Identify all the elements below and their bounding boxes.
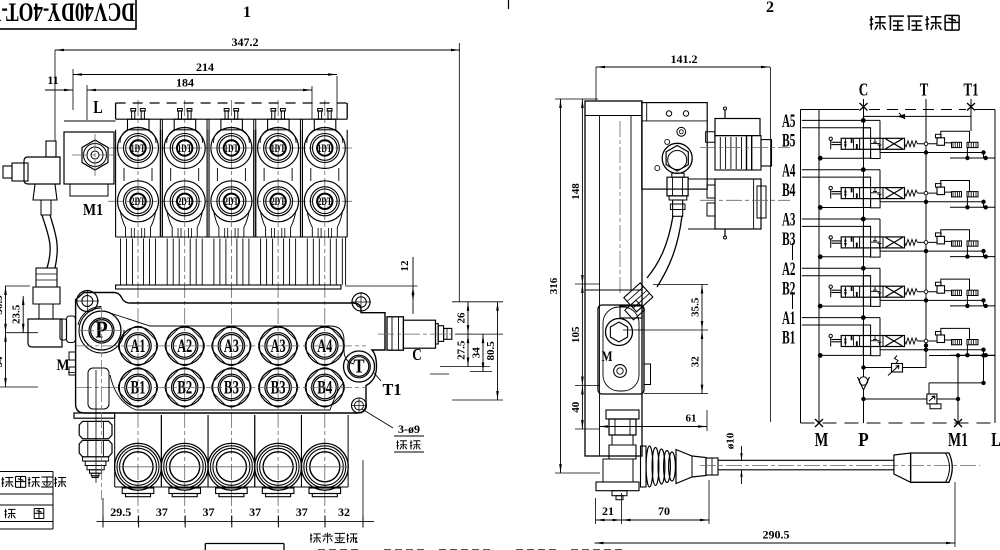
valve section 2 (solenoids 1DT/2DT) — [162, 109, 207, 239]
svg-text:T: T — [354, 356, 366, 378]
small port — [655, 166, 660, 171]
center carryover box — [863, 325, 870, 355]
C fitting centerline — [378, 333, 472, 335]
body inner contour around ports — [104, 311, 354, 364]
port X at M1 — [954, 419, 962, 427]
dim 316 148 105 40 — [555, 98, 598, 100]
valve X position — [886, 139, 903, 149]
bracket wires — [941, 279, 970, 290]
svg-text:36.5: 36.5 — [0, 295, 5, 315]
center carryover box — [863, 276, 870, 306]
svg-text:184: 184 — [176, 76, 194, 90]
spring symbol — [905, 141, 918, 147]
wire valve to pilot box — [918, 143, 938, 145]
mounting band above body — [116, 285, 341, 289]
tank line — [880, 201, 984, 203]
dim 141.2 — [595, 67, 597, 101]
svg-text::: : — [354, 532, 358, 546]
valve section 3 (solenoids 1DT/2DT) — [209, 109, 254, 239]
svg-text:2: 2 — [766, 0, 774, 16]
wire valve to pilot box — [918, 241, 938, 243]
svg-text:A2: A2 — [782, 260, 796, 280]
right side dims 26 27.5 34 80.5 — [452, 301, 503, 303]
directional valve V3 — [841, 237, 904, 248]
pilot block circle (35.5) — [606, 319, 633, 346]
pilot check box — [937, 187, 945, 195]
svg-text:35.5: 35.5 — [690, 297, 702, 317]
elbow fitting (top, port L side) — [46, 141, 56, 157]
bracket wires — [941, 131, 970, 142]
svg-text:37: 37 — [156, 505, 168, 519]
tank line — [880, 299, 984, 301]
supply bracket left — [820, 157, 863, 159]
svg-text:32: 32 — [690, 356, 702, 368]
lever rod centerline — [700, 465, 980, 467]
svg-text:12: 12 — [399, 260, 411, 272]
solenoid block 2 — [967, 340, 978, 345]
spool end cap 3 — [208, 443, 255, 490]
supply bracket left — [820, 256, 863, 258]
front view: valve section centerlines — [137, 100, 139, 524]
sub box under valve — [871, 248, 881, 257]
svg-text:37: 37 — [249, 505, 261, 519]
sub box under valve — [871, 347, 881, 356]
wire B4 line — [802, 176, 871, 178]
C/P rail — [863, 99, 865, 377]
coupling nut — [33, 184, 57, 200]
main valve body outline — [76, 293, 385, 414]
svg-text:B1: B1 — [782, 329, 796, 349]
schematic boundary top — [801, 109, 860, 111]
carryover line with arrow — [864, 115, 972, 117]
boundary right rail (L) — [994, 110, 996, 424]
solenoid block 2 — [967, 290, 978, 295]
svg-text:214: 214 — [196, 60, 214, 74]
port X at M — [815, 419, 823, 427]
label tong kong (through hole) — [397, 440, 421, 449]
svg-text:B2: B2 — [782, 279, 796, 299]
lever symbol — [829, 334, 832, 337]
svg-text:316: 316 — [548, 277, 560, 294]
solenoid block 1 — [952, 340, 962, 345]
elbow fitting 2 (port side) — [33, 287, 60, 304]
directional valve V2 — [841, 286, 904, 297]
left margin table: generic parts registry — [0, 471, 53, 473]
valve X position — [886, 188, 903, 198]
svg-text:3-ø9: 3-ø9 — [398, 422, 420, 436]
B row centerline — [76, 386, 366, 388]
svg-text:T1: T1 — [964, 80, 979, 100]
spool end cap 4 — [255, 443, 302, 490]
svg-text:L: L — [93, 97, 103, 117]
C port fitting — [387, 317, 403, 350]
svg-text:70: 70 — [658, 504, 670, 518]
spring symbol — [905, 239, 918, 245]
left side dims 23.5 34 — [5, 285, 30, 287]
wire B3 line — [802, 225, 871, 227]
L port block — [64, 132, 114, 184]
svg-text:C: C — [412, 345, 422, 364]
pilot check box — [937, 138, 945, 146]
bracket relief2 — [928, 383, 930, 394]
lever collar — [706, 458, 718, 475]
vent hole — [666, 111, 671, 116]
svg-text:27.5: 27.5 — [456, 340, 468, 360]
stack centerline — [95, 370, 97, 483]
svg-text:1: 1 — [243, 4, 251, 21]
svg-text:ø10: ø10 — [725, 432, 737, 449]
center carryover box — [863, 128, 870, 158]
tank line — [880, 250, 984, 252]
svg-text:141.2: 141.2 — [671, 52, 698, 66]
wire valve to pilot box — [918, 291, 938, 293]
bracket wires — [941, 328, 970, 339]
M1 up line — [957, 356, 959, 424]
port circle B3 — [208, 364, 256, 412]
solenoid block 2 — [967, 241, 978, 246]
cartridge pin lower — [724, 229, 726, 236]
T1 stub — [970, 99, 972, 131]
side view: solenoid head block — [642, 103, 707, 190]
dim 12 (right step) — [345, 285, 418, 287]
svg-text:M1: M1 — [83, 200, 103, 219]
solenoid block 2 — [967, 192, 978, 197]
svg-text:A4: A4 — [782, 161, 796, 181]
spool housings — [114, 415, 116, 487]
svg-text:A1: A1 — [782, 309, 796, 329]
dim 35.5 32 — [653, 284, 708, 286]
svg-text:B3: B3 — [782, 230, 796, 250]
spring symbol — [905, 338, 918, 344]
center carryover box — [863, 177, 870, 207]
sections bottom edge — [116, 236, 348, 238]
pilot check box — [937, 335, 945, 343]
solenoid block 2 — [967, 142, 978, 147]
vent hole — [683, 111, 688, 116]
cartridge pin — [724, 110, 726, 119]
svg-text:29.5: 29.5 — [110, 505, 131, 519]
wire A4 line — [802, 169, 880, 171]
svg-text:L: L — [991, 430, 1000, 451]
svg-text:C: C — [859, 80, 869, 100]
valve section 5 (solenoids 1DT/2DT) — [302, 109, 347, 239]
mounting bolt hole bottom-right (3-eq9) — [352, 398, 367, 413]
A row centerline — [76, 345, 366, 347]
cartridge axis lines — [700, 147, 790, 149]
wire valve to pilot box — [918, 340, 938, 342]
section separators — [159, 119, 161, 237]
solenoid block 1 — [952, 142, 962, 147]
sub box under valve — [871, 297, 881, 306]
sections top edge — [116, 118, 348, 120]
bolt stack below body — [74, 413, 115, 418]
hose fitting under ball — [672, 173, 684, 177]
port circle T — [344, 351, 375, 382]
lower solenoid cartridge (side) — [715, 179, 761, 229]
valve section 4 (solenoids 1DT/2DT) — [256, 109, 301, 239]
port circle B4 — [301, 364, 349, 412]
dim 184 + 11 — [86, 85, 88, 120]
pilot check box — [937, 286, 945, 294]
valve section 1 (solenoids 1DT/2DT) — [116, 109, 161, 239]
filter/check at P — [858, 377, 870, 390]
spring symbol — [905, 289, 918, 295]
lever rod — [718, 459, 894, 461]
dim 214 — [72, 69, 74, 110]
mounting bolt hole top-left — [77, 291, 98, 312]
svg-text:23.5: 23.5 — [11, 304, 23, 324]
svg-text:37: 37 — [203, 505, 215, 519]
lever grip — [894, 453, 911, 482]
wire A3 line — [802, 218, 880, 220]
supply bracket left — [820, 207, 863, 209]
wire B5 line — [802, 127, 871, 129]
small port — [665, 139, 670, 144]
connection line cartridge to block — [688, 178, 715, 180]
base plate — [596, 482, 639, 491]
dim 61 — [706, 410, 708, 431]
port circle A3 — [254, 322, 302, 370]
valve X position — [886, 336, 903, 346]
side bolt stack — [606, 410, 639, 419]
solenoid block 1 — [952, 290, 962, 295]
svg-text:26: 26 — [456, 312, 468, 324]
technical parameters heading — [310, 533, 357, 544]
side view: main column — [585, 101, 642, 456]
dim 290.5 — [954, 482, 956, 547]
inlet plate top edge — [64, 120, 116, 122]
port circle A1 — [114, 322, 162, 370]
bottom dims 29.5 37x4 32 — [102, 498, 104, 526]
tank line — [880, 349, 984, 351]
svg-text:B5: B5 — [782, 132, 796, 152]
T rail — [925, 99, 927, 368]
port circle A3 — [208, 322, 256, 370]
svg-text:61: 61 — [686, 413, 697, 425]
label tick marks — [792, 243, 794, 260]
plugged port X at C — [860, 103, 868, 111]
plugged port X at T1 — [967, 103, 975, 111]
sight ring — [677, 127, 686, 136]
svg-text:M: M — [57, 357, 70, 374]
spool end cap 1 — [115, 443, 162, 490]
wire A2 line — [802, 267, 880, 269]
lever cone — [676, 450, 706, 484]
svg-text:M: M — [602, 349, 613, 365]
wire B2 line — [802, 275, 871, 277]
port circle A2 — [161, 322, 209, 370]
dim 347.2 — [54, 50, 56, 141]
pilot block small circle — [614, 365, 627, 378]
relief valve 2 (pilot) — [927, 394, 937, 404]
lever symbol — [829, 186, 832, 189]
bottom center table box — [205, 543, 284, 545]
svg-text:148: 148 — [570, 183, 582, 200]
centerline through 2DT circles — [108, 200, 352, 202]
hose — [42, 215, 50, 268]
side view: pilot block — [598, 305, 644, 394]
solenoid block 1 — [952, 192, 962, 197]
valve sections top dashed edge — [116, 102, 348, 104]
svg-text:M1: M1 — [948, 430, 968, 451]
wire A5 line — [802, 119, 880, 121]
svg-text:80.5: 80.5 — [485, 341, 497, 361]
sub box under valve — [871, 199, 881, 208]
centerline through 1DT circles — [108, 147, 352, 149]
svg-text:T1: T1 — [383, 380, 402, 399]
title box DCV40DY-4OT-Y (rotated 180) — [0, 0, 136, 29]
lever symbol — [829, 236, 832, 239]
border zone tick — [508, 0, 510, 9]
relief slot on body left — [88, 368, 109, 409]
valve X position — [886, 287, 903, 297]
svg-text:40: 40 — [570, 401, 582, 413]
wire A1 line — [802, 317, 880, 319]
P column centerline — [101, 308, 103, 500]
hose coupling — [36, 268, 57, 287]
upper solenoid cartridge (side) — [715, 119, 760, 136]
spool end cap 5 — [301, 443, 348, 490]
svg-text:11: 11 — [47, 73, 58, 87]
port circle A4 — [301, 322, 349, 370]
dim 21 70 — [595, 498, 597, 524]
tiny clipped parameter text — [318, 549, 622, 550]
boundary bottom dashed — [801, 422, 996, 424]
pilot check box — [937, 236, 945, 244]
lever symbol — [829, 137, 832, 140]
svg-text:M: M — [815, 430, 829, 451]
lever symbol — [829, 285, 832, 288]
supply bracket left — [820, 305, 863, 307]
port circle B1 — [114, 364, 162, 412]
svg-text:P: P — [858, 430, 869, 451]
directional valve V5 — [841, 138, 904, 149]
svg-text:B4: B4 — [782, 181, 796, 201]
svg-text:105: 105 — [570, 326, 582, 343]
svg-text:A5: A5 — [782, 112, 796, 132]
lever bellows — [641, 446, 647, 487]
svg-text:21: 21 — [602, 504, 614, 518]
schematic title (CJK: hydraulic principle diagram) — [870, 15, 959, 30]
svg-text:T: T — [920, 80, 929, 100]
valve X position — [886, 237, 903, 247]
tank line — [880, 152, 984, 154]
svg-text:32: 32 — [338, 505, 350, 519]
port circle P — [79, 308, 124, 353]
sub box under valve — [871, 149, 881, 158]
M port step left — [69, 352, 76, 375]
solenoid block 1 — [952, 241, 962, 246]
svg-text:A3: A3 — [782, 211, 796, 231]
spool end cap 2 — [161, 443, 208, 490]
port circle B2 — [161, 364, 209, 412]
svg-text:37: 37 — [296, 505, 308, 519]
svg-text:347.2: 347.2 — [232, 35, 259, 49]
directional valve V1 — [841, 336, 904, 347]
hex fitting L — [82, 140, 108, 170]
directional valve V4 — [841, 188, 904, 199]
svg-text:DCV40DY-4OT-YT: DCV40DY-4OT-YT — [0, 0, 135, 27]
port circle B3 — [254, 364, 302, 412]
hex fitting into pilot block — [620, 306, 642, 318]
wire B1 line — [802, 324, 871, 326]
leader 3-eq9 — [362, 409, 393, 428]
mounting bolt hole top-right — [352, 293, 370, 311]
svg-text:34: 34 — [471, 347, 483, 359]
center carryover box — [863, 226, 870, 256]
M rail — [818, 110, 820, 424]
relief valve 1 — [892, 364, 903, 373]
joystick ball nut — [662, 143, 692, 173]
spring symbol — [905, 190, 918, 196]
wire valve to pilot box — [918, 192, 938, 194]
boundary left rail — [800, 110, 802, 424]
bracket wires — [941, 230, 970, 241]
svg-text:34: 34 — [0, 356, 5, 368]
left margin table: tracing row — [0, 504, 53, 506]
bracket wires — [941, 181, 970, 192]
hose curve side view — [647, 216, 673, 278]
svg-text:290.5: 290.5 — [763, 528, 790, 542]
supply bracket left — [820, 354, 863, 356]
hose coupling (angled) — [624, 283, 653, 312]
